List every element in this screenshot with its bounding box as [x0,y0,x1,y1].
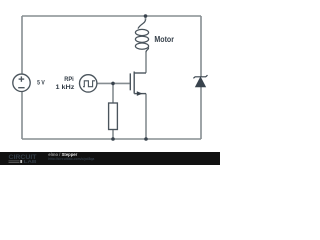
svg-text:RPi: RPi [64,76,74,83]
svg-text:1 kHz: 1 kHz [56,84,76,91]
svg-text:5 V: 5 V [37,79,45,86]
svg-text:LAB: LAB [24,159,38,164]
svg-text:htto://circuitlab.com/c/pd8qa: htto://circuitlab.com/c/pd8qa [48,157,94,161]
svg-text:Motor: Motor [154,34,174,44]
